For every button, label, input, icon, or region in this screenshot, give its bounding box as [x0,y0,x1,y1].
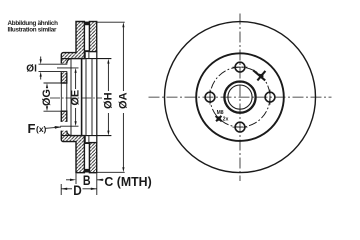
svg-text:ØA: ØA [117,92,129,109]
svg-text:2x: 2x [223,117,229,123]
svg-text:F: F [28,121,36,136]
svg-text:ØH: ØH [102,92,114,109]
svg-text:ØG: ØG [41,89,53,106]
svg-text:D: D [73,183,82,198]
svg-text:B: B [83,173,91,188]
svg-text:M8: M8 [217,110,224,116]
svg-text:ØI: ØI [26,64,37,75]
svg-text:C (MTH): C (MTH) [104,174,151,189]
svg-text:(x): (x) [36,124,47,134]
svg-text:ØE: ØE [70,90,82,106]
svg-text:Illustration similar: Illustration similar [8,26,57,33]
